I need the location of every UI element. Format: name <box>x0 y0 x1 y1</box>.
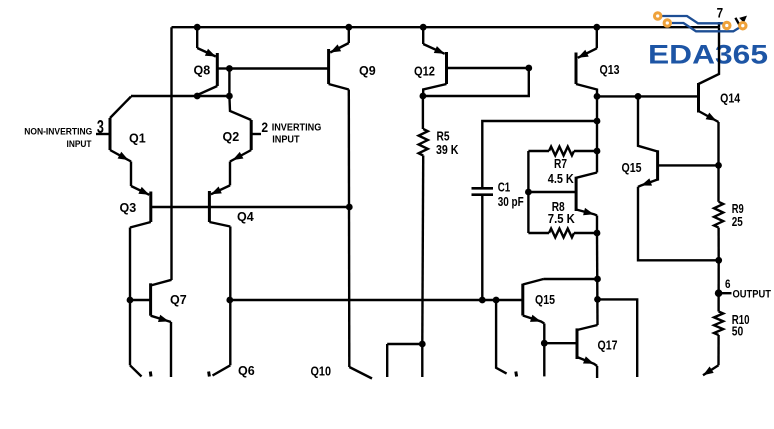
node Q2 collector junction <box>226 93 233 100</box>
svg-text:7: 7 <box>717 6 724 21</box>
svg-text:4.5 K: 4.5 K <box>548 172 574 186</box>
svg-text:INVERTING: INVERTING <box>272 123 322 134</box>
node Q8 emitter on rail <box>194 24 201 31</box>
transistor Q12 (PNP) <box>414 27 529 96</box>
node Q13 collector <box>594 93 601 100</box>
wire Q4 collector down to Q6 <box>229 227 231 366</box>
svg-text:25: 25 <box>732 215 743 229</box>
node R7/R8 divider tap <box>525 189 532 196</box>
svg-text:6: 6 <box>725 277 731 291</box>
svg-text:INPUT: INPUT <box>67 139 92 150</box>
transistor Q17 <box>544 325 617 366</box>
svg-text:NON-INVERTING: NON-INVERTING <box>24 127 92 138</box>
node C1 bottom tap <box>479 297 486 304</box>
svg-text:Q15: Q15 <box>535 293 555 307</box>
wire R7/R8 left tie <box>527 151 529 233</box>
node Q15 collector junction <box>594 276 601 283</box>
node Q8 collector <box>194 93 201 100</box>
wire drop below cut <box>496 300 507 374</box>
svg-text:30 pF: 30 pF <box>498 195 524 209</box>
svg-text:Q15: Q15 <box>622 161 642 175</box>
wire Q3/Q4 base line <box>151 206 349 208</box>
svg-text:Q3: Q3 <box>120 201 137 215</box>
svg-text:3: 3 <box>97 116 104 137</box>
wire first stage output line <box>230 299 523 301</box>
transistor Q14 (NPN output) <box>699 27 741 122</box>
node Q12 emitter on rail <box>420 24 427 31</box>
node Q14 emitter junction <box>715 162 722 169</box>
node R8 right end <box>594 230 601 237</box>
node Q4 collector tap <box>226 297 233 304</box>
transistor Q7 (NPN) <box>130 280 187 322</box>
svg-text:2: 2 <box>261 119 268 135</box>
capacitor C1 30pF <box>472 121 598 300</box>
transistor Q8 (PNP) <box>194 27 230 96</box>
node output pin 6 <box>715 289 723 297</box>
transistor Q6 stub (cut) <box>213 365 231 375</box>
node Q8 base junction <box>226 65 233 72</box>
pin 6 stub <box>719 292 732 294</box>
logo pad 3 <box>724 22 730 28</box>
logo pad 1 <box>655 13 661 19</box>
wire Q14 emitter to R9 <box>717 122 719 165</box>
wire left V+ drop to Q7 collector <box>170 27 172 280</box>
svg-text:Q7: Q7 <box>170 293 187 307</box>
svg-text:50: 50 <box>732 325 744 339</box>
transistor Q3 (PNP) <box>120 186 151 228</box>
resistor R8 7.5K <box>528 200 597 238</box>
transistor Q2 (NPN input) <box>223 96 262 162</box>
node R9 bottom junction <box>715 257 722 264</box>
resistor R5 39K <box>419 96 459 344</box>
logo V+ arrow <box>735 18 740 27</box>
wire R9 bottom to output <box>717 260 720 311</box>
wire Q8 base-collector tie <box>228 69 230 97</box>
node Q12 collector <box>420 93 427 100</box>
svg-text:Q17: Q17 <box>598 339 618 353</box>
wire Q10 collector stub (cut) <box>349 367 372 379</box>
svg-text:Q8: Q8 <box>194 64 211 78</box>
transistor Q5 stub (cut) <box>130 365 142 376</box>
svg-text:OUTPUT: OUTPUT <box>733 289 772 301</box>
transistor Q4 (PNP) <box>209 185 253 226</box>
resistor R7 4.5K <box>528 147 597 186</box>
svg-text:INPUT: INPUT <box>272 135 299 146</box>
svg-text:C1: C1 <box>498 181 511 195</box>
node lower drop tap <box>493 297 500 304</box>
svg-text:Q6: Q6 <box>238 364 255 378</box>
node C1 top tap <box>594 118 601 125</box>
resistor R9 25 <box>714 165 744 260</box>
transistor Q20 emitter stub (cut) <box>703 365 719 375</box>
wire Q15 emitter to R9 bottom <box>638 187 719 260</box>
wire Q20 base drive <box>598 299 638 377</box>
transistor between R7 and R8 (VBE multiplier) <box>528 173 597 216</box>
wire second stage vertical lower <box>596 233 599 325</box>
wire second stage vertical upper <box>596 96 598 172</box>
wire Q7 emitter down <box>170 322 172 377</box>
svg-text:Q14: Q14 <box>720 91 740 105</box>
logo pad 2 <box>664 20 670 26</box>
wire Q12 base-collector tie <box>423 68 529 96</box>
node Q20 drive junction <box>594 296 601 303</box>
svg-text:R5: R5 <box>437 130 450 144</box>
logo pad 4 <box>740 23 746 29</box>
wire Q9 collector down to Q10 <box>348 90 351 368</box>
svg-text:Q12: Q12 <box>414 65 435 79</box>
svg-text:39 K: 39 K <box>436 143 459 157</box>
node R7 right end <box>594 148 601 155</box>
logo trace lower <box>672 23 741 31</box>
svg-text:R9: R9 <box>732 202 744 216</box>
node Q3/Q4 base to Q9 collector <box>346 204 353 211</box>
wire Q15 emitter to Q17 base <box>543 324 545 377</box>
wire Q13 collector to Q14 base <box>597 95 699 97</box>
svg-text:Q4: Q4 <box>237 210 254 224</box>
svg-text:Q2: Q2 <box>223 130 240 144</box>
wire Q2 emitter to Q4 emitter <box>229 162 231 186</box>
logo trace upper <box>662 16 726 25</box>
svg-text:Q13: Q13 <box>600 63 620 77</box>
wire Q3 collector down to Q5 <box>129 228 131 366</box>
stub of transistor bar below cut <box>514 372 518 377</box>
transistor Q15 (current limit) <box>622 96 719 186</box>
svg-text:EDA365: EDA365 <box>648 40 768 70</box>
node Q15 collector tap <box>635 93 642 100</box>
wire Q1 emitter to Q3 emitter <box>130 162 132 187</box>
svg-text:Q9: Q9 <box>359 64 376 78</box>
node Q13 emitter on rail <box>593 24 600 31</box>
transistor Q1 (NPN input) <box>96 97 146 162</box>
transistor Q15 (driver) <box>523 279 598 324</box>
svg-text:Q10: Q10 <box>311 364 332 378</box>
wire Q17 emitter down (cut) <box>596 366 598 378</box>
wire V+ top rail (pin 7) <box>172 26 720 28</box>
resistor R10 50 <box>714 312 750 366</box>
svg-text:7.5 K: 7.5 K <box>548 212 575 226</box>
wire Q16 emitter to R8 node <box>596 216 598 234</box>
svg-text:Q1: Q1 <box>129 132 146 146</box>
wire Q10/Q11 base rail <box>387 343 422 345</box>
node Q7 base on Q3 collector line <box>127 297 134 304</box>
node Q11 collector junction <box>419 341 426 348</box>
wire Q1/Q2 collectors to Q8 collector <box>131 95 229 97</box>
node Q12 base junction <box>525 65 532 72</box>
svg-text:R7: R7 <box>554 157 567 171</box>
pin 7 stub <box>718 22 720 27</box>
wire Q8 base to Q9 base <box>229 67 328 69</box>
transistor Q9 (PNP) <box>329 27 376 89</box>
transistor Q13 (PNP) <box>576 27 620 96</box>
node Q17 base junction <box>541 340 548 347</box>
node Q9 emitter on rail <box>345 24 352 31</box>
